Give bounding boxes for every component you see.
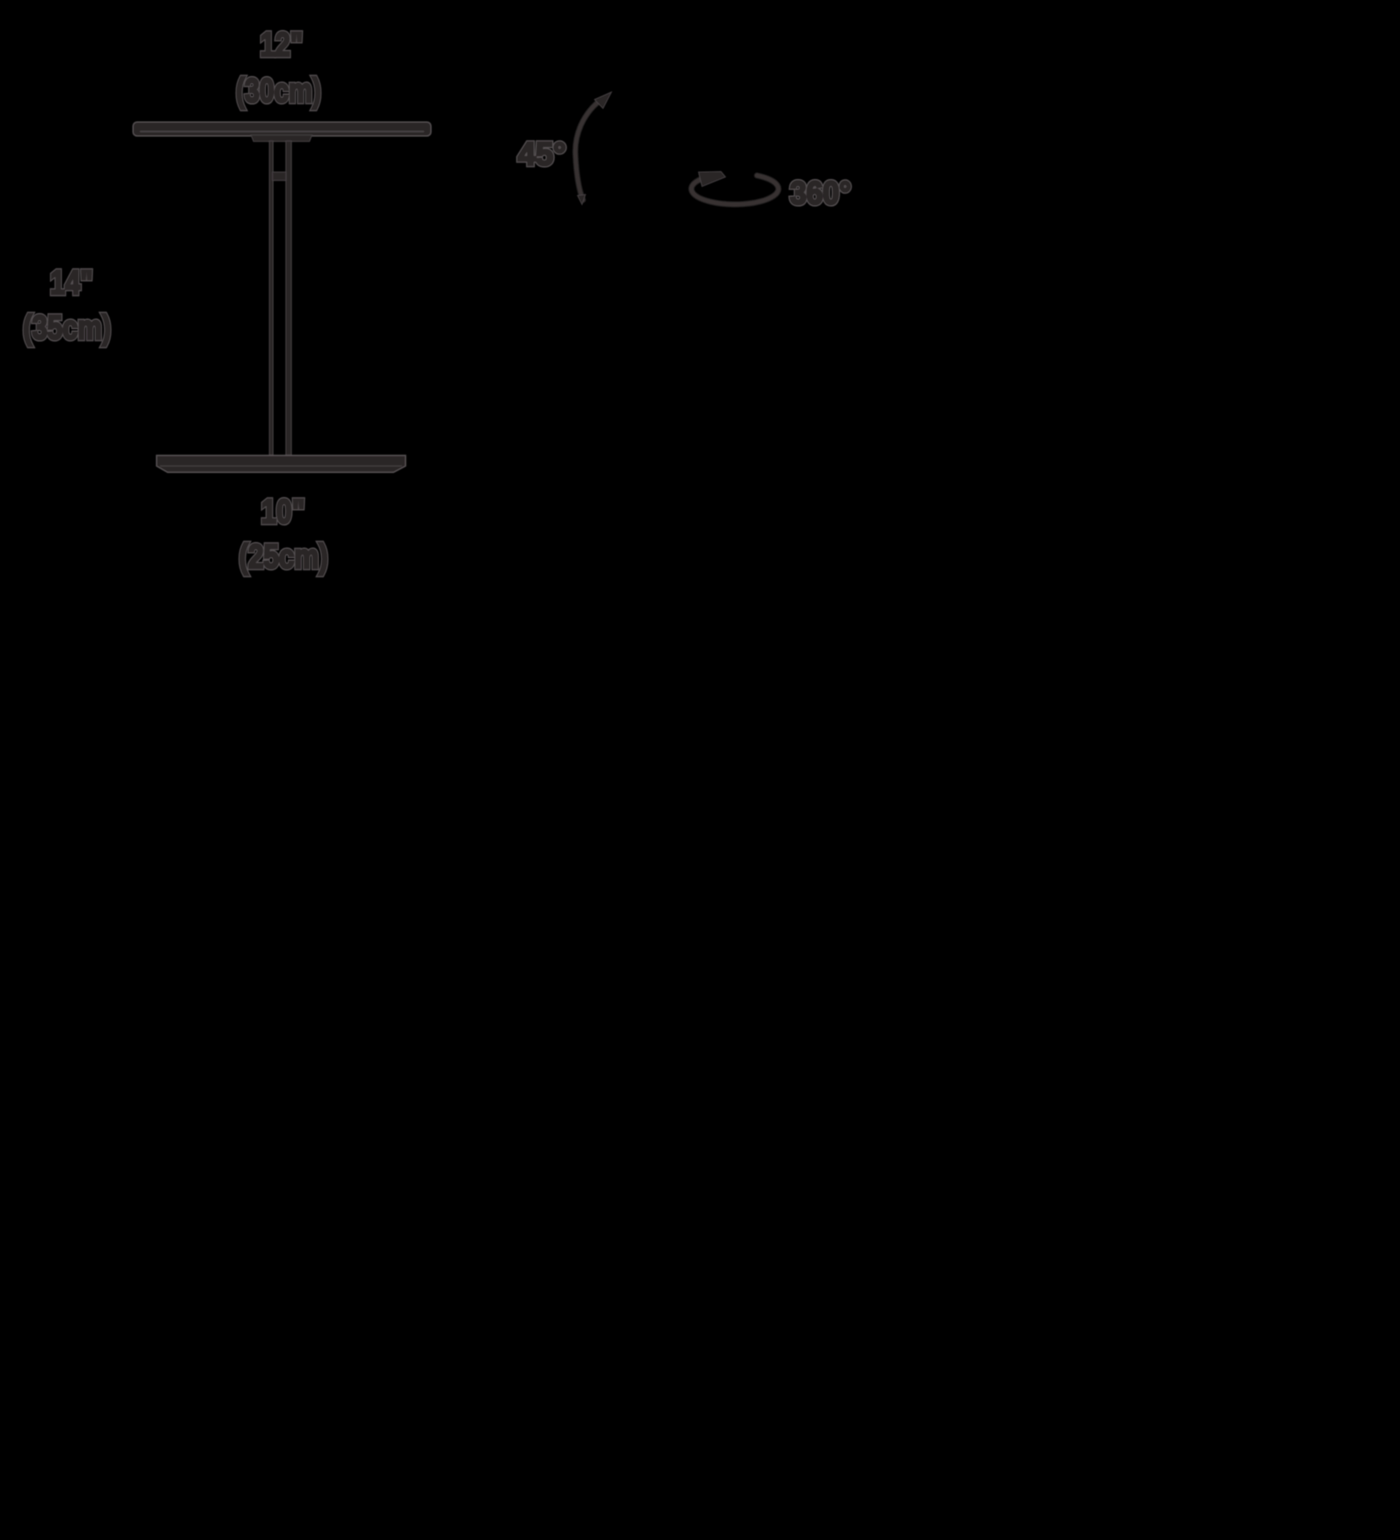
- label 12 inch: [260, 26, 303, 64]
- table top: [133, 122, 431, 136]
- column adjustment crossbar: [273, 172, 287, 181]
- tilt arc bottom tip: [578, 195, 586, 205]
- svg-text:12": 12": [260, 26, 303, 64]
- rotation arc halo: [691, 176, 778, 205]
- label 45 degrees: [518, 136, 566, 172]
- label (35cm): [23, 309, 111, 347]
- column mount plate: [251, 135, 312, 142]
- svg-text:(35cm): (35cm): [23, 309, 111, 347]
- table top inner edge line: [140, 131, 424, 133]
- column right edge: [286, 141, 292, 456]
- svg-text:10": 10": [261, 493, 305, 531]
- svg-text:(30cm): (30cm): [236, 72, 321, 110]
- label (30cm): [236, 72, 321, 110]
- svg-text:(25cm): (25cm): [239, 538, 328, 576]
- svg-text:360°: 360°: [790, 175, 851, 211]
- tilt arc top arrowhead: [595, 92, 612, 109]
- column left edge: [269, 141, 273, 456]
- label (25cm): [239, 538, 328, 576]
- base plate edge line: [160, 465, 402, 467]
- 45 degree tilt arc: [575, 99, 602, 200]
- base plate: [157, 455, 406, 472]
- label 14 inch: [50, 264, 93, 302]
- tilt arc halo: [575, 99, 602, 200]
- rotation arrowhead: [699, 172, 726, 187]
- svg-text:14": 14": [50, 264, 93, 302]
- label 360 degrees: [790, 175, 851, 211]
- label 10 inch: [261, 493, 305, 531]
- 360 rotation ellipse arc: [691, 176, 778, 205]
- svg-text:45°: 45°: [518, 136, 566, 172]
